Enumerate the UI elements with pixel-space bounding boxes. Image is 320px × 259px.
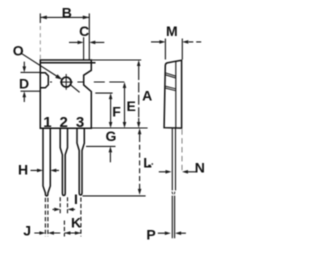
svg-text:1: 1 xyxy=(43,114,51,131)
svg-text:H: H xyxy=(18,161,28,177)
svg-text:J: J xyxy=(23,223,31,239)
svg-text:D: D xyxy=(19,76,29,92)
dimension line work xyxy=(21,13,202,236)
bottom extension body line for A E F xyxy=(91,127,147,129)
svg-text:A: A xyxy=(142,87,152,103)
dim J extensions xyxy=(45,198,48,237)
leader line O to hole xyxy=(22,54,80,93)
left side notch xyxy=(40,73,48,88)
side view body outline xyxy=(164,60,182,128)
pin 2 front view xyxy=(60,128,67,195)
dim N right extension from body edge xyxy=(181,129,183,172)
svg-text:B: B xyxy=(62,4,72,20)
dim N stray dash xyxy=(148,164,151,166)
dim M arrowheads xyxy=(159,40,165,44)
dim I tails xyxy=(53,208,76,210)
dim E line xyxy=(124,86,126,124)
dim K line xyxy=(64,232,81,234)
dim B extension left xyxy=(39,13,41,23)
svg-text:K: K xyxy=(71,215,81,231)
dot after L xyxy=(151,163,153,165)
svg-text:G: G xyxy=(106,128,117,144)
svg-text:N: N xyxy=(195,160,205,176)
side view lead break marks xyxy=(172,192,175,195)
mounting hole xyxy=(61,77,71,87)
svg-text:P: P xyxy=(146,226,155,242)
side view lead lower section xyxy=(172,196,174,239)
dim M tails xyxy=(151,41,201,43)
dim E dashed extension from hole center xyxy=(50,81,124,83)
dim K arrowheads xyxy=(64,231,70,235)
dim B arrowheads xyxy=(40,16,47,20)
dim I arrowheads xyxy=(54,208,60,212)
side view inner vertical line xyxy=(175,61,177,128)
svg-text:F: F xyxy=(112,103,121,119)
dim H arrowheads xyxy=(37,169,43,173)
dim N arrowheads xyxy=(166,170,172,174)
dim L arrowheads xyxy=(138,128,142,134)
svg-text:O: O xyxy=(13,42,24,58)
dim F extension xyxy=(95,92,112,94)
dim A arrowheads xyxy=(137,60,141,66)
dim G arrowhead xyxy=(109,146,113,152)
dim M extensions xyxy=(165,39,182,60)
svg-text:M: M xyxy=(166,23,178,39)
package body front view outline xyxy=(40,60,91,128)
pin 3 front view xyxy=(77,128,84,195)
svg-text:C: C xyxy=(79,23,89,39)
dim J arrowheads xyxy=(39,231,45,235)
dim K extensions xyxy=(64,198,81,237)
hole crosshair vertical xyxy=(65,74,67,90)
dim P tails xyxy=(158,232,186,234)
svg-text:3: 3 xyxy=(76,114,84,131)
hole crosshair horizontal xyxy=(60,81,73,83)
dim I extensions xyxy=(60,197,67,213)
dim G extension xyxy=(86,145,116,147)
dim F line xyxy=(110,97,112,124)
dim P arrowheads xyxy=(165,231,171,235)
dim A top extension xyxy=(91,59,141,61)
dim C arrowheads xyxy=(78,41,84,45)
dim H tails xyxy=(31,169,60,171)
pin 1 front view xyxy=(43,128,50,196)
dim B extension right xyxy=(88,13,90,59)
svg-text:L: L xyxy=(143,155,152,171)
dim L bottom extension at lead tips xyxy=(83,195,146,197)
dim C tails xyxy=(69,41,104,43)
dim L line xyxy=(139,132,141,138)
svg-text:E: E xyxy=(127,98,136,114)
dim D arrowheads xyxy=(23,66,27,72)
dim G arrow stem xyxy=(109,152,111,162)
dim C extension left xyxy=(83,37,85,59)
dim D extension lines xyxy=(21,72,41,91)
side view lower groove line pair xyxy=(165,86,176,91)
dim B line xyxy=(40,16,89,18)
svg-text:I: I xyxy=(74,191,78,207)
dim A line xyxy=(138,64,140,70)
body top inner line xyxy=(40,62,95,64)
dim J tails xyxy=(34,232,60,234)
side view lead upper section xyxy=(172,128,175,190)
dim F arrowheads xyxy=(109,93,113,99)
dim D arrow stems xyxy=(23,62,25,102)
leader O arrowhead xyxy=(55,74,62,79)
side view upper groove line pair xyxy=(165,73,176,78)
arrowheads xyxy=(23,16,189,236)
svg-text:2: 2 xyxy=(60,114,68,131)
dim N tails xyxy=(159,171,197,173)
dim E arrowheads xyxy=(123,82,127,88)
